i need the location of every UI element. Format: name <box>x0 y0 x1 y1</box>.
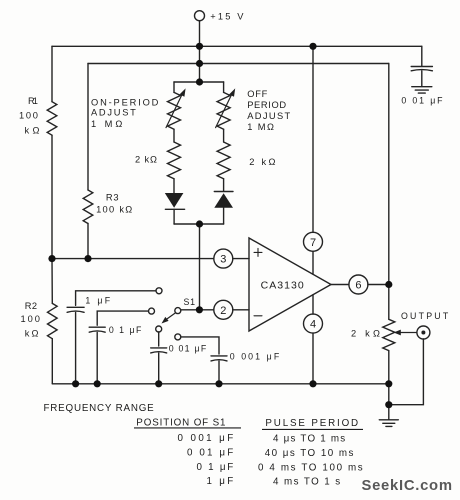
pin 6 circle <box>349 275 368 294</box>
svg-text:0 001 μF: 0 001 μF <box>230 352 280 362</box>
switch S1 contact 2 <box>149 308 155 314</box>
svg-text:+15 V: +15 V <box>210 12 244 22</box>
junction pot pair top <box>196 78 203 85</box>
wire left pot to 2k left <box>173 129 175 142</box>
wire pin3 circle to op-amp <box>233 258 249 260</box>
junction center at feedback rail <box>196 60 203 67</box>
svg-text:40 μs TO 10 ms: 40 μs TO 10 ms <box>265 448 355 459</box>
capacitor 0.001uF <box>211 356 227 384</box>
wire output terminal return <box>389 339 424 405</box>
svg-text:ADJUST: ADJUST <box>91 108 137 118</box>
svg-text:R2: R2 <box>25 301 38 311</box>
wire contact3 to 0.01uF cap <box>158 332 160 346</box>
diode D2 (cathode up, anode down) <box>214 192 233 225</box>
arrow of OFF-PERIOD pot <box>216 88 236 127</box>
svg-text:CA3130: CA3130 <box>261 280 304 292</box>
svg-text:100: 100 <box>19 110 39 120</box>
wire 2k left to diode D1 <box>173 179 175 193</box>
pin 2 circle <box>214 300 233 319</box>
potentiometer ON-PERIOD ADJUST 1M <box>168 92 181 129</box>
junction output return <box>385 401 392 408</box>
wiper arrow of output pot <box>394 330 417 336</box>
output terminal <box>417 326 430 339</box>
switch S1 contact 3 <box>156 326 162 332</box>
potentiometer 2k output <box>383 319 395 350</box>
arrow of ON-PERIOD pot <box>166 88 186 127</box>
svg-text:100: 100 <box>21 314 42 324</box>
junction pin3 R3 <box>84 255 91 262</box>
pin 7 circle <box>304 232 323 251</box>
potentiometer OFF-PERIOD ADJUST 1M <box>217 92 230 129</box>
svg-text:0 001 μF: 0 001 μF <box>178 433 235 444</box>
svg-text:4 ms TO 1 s: 4 ms TO 1 s <box>273 477 341 488</box>
wire output pot bottom to ground <box>388 351 390 405</box>
wire +15V terminal to top rail <box>199 21 201 47</box>
wire center column from rail to pot pair <box>199 46 201 82</box>
junction diode pair bottom <box>196 220 203 227</box>
resistor 2k left <box>168 142 181 179</box>
junction 0.1uF at ground rail <box>94 380 101 387</box>
wire output column (feedback rail down to output pot) <box>388 64 390 320</box>
wire switch pole to pin2 circle <box>181 309 214 311</box>
switch S1 pole <box>175 308 181 314</box>
svg-text:7: 7 <box>310 237 316 249</box>
pin 4 circle <box>304 314 323 333</box>
wire op-amp output to pin6 circle <box>331 284 349 286</box>
switch S1 contact 4 <box>175 334 181 340</box>
switch S1 contact 1 <box>156 288 162 294</box>
junction +15V at top rail <box>196 43 203 50</box>
underline POSITION OF S1 <box>134 427 241 429</box>
wire center column diodes to pin2 line <box>199 224 201 310</box>
junction 0.001uF at ground rail <box>215 380 222 387</box>
wire diode pair bottom bus <box>174 223 224 225</box>
wire R2 bottom to ground rail <box>51 339 53 384</box>
wire pin2 circle to op-amp <box>233 309 249 311</box>
capacitor 0.01uF bypass <box>411 67 432 87</box>
wire R1 bottom to pin3 node <box>51 135 53 258</box>
junction pin4 at ground rail <box>309 380 316 387</box>
svg-text:kΩ: kΩ <box>25 329 40 339</box>
capacitor 1uF <box>67 307 84 384</box>
svg-text:1 MΩ: 1 MΩ <box>91 119 123 129</box>
wire pin7 circle to op-amp top edge <box>312 251 314 274</box>
wire pin7 column from top rail <box>312 46 314 232</box>
op-amp U1 CA3130 triangle <box>249 238 331 331</box>
wire 0.01uF supply bypass cap from rail <box>421 46 423 66</box>
svg-text:0 1 μF: 0 1 μF <box>109 325 142 335</box>
capacitor 0.1uF <box>89 327 105 384</box>
svg-text:OFF: OFF <box>247 89 268 99</box>
diode D1 (anode up, cathode down) <box>165 193 185 224</box>
resistor R3 <box>83 190 93 224</box>
svg-text:0 01 μF: 0 01 μF <box>169 343 207 353</box>
junction output column at ground rail <box>385 380 392 387</box>
svg-text:0 01 μF: 0 01 μF <box>401 96 443 106</box>
junction 1uF at ground rail <box>72 380 79 387</box>
wire op-amp bottom edge to pin4 circle <box>312 295 314 314</box>
svg-text:2 kΩ: 2 kΩ <box>351 329 381 339</box>
resistor R2 <box>48 303 58 338</box>
svg-text:3: 3 <box>220 254 226 266</box>
svg-text:4: 4 <box>310 319 316 331</box>
wire pot pair top bus <box>174 81 224 83</box>
wire left pot branch top <box>173 82 175 92</box>
wire left column top (rail to R1) <box>51 46 53 101</box>
svg-text:1 MΩ: 1 MΩ <box>247 122 275 132</box>
wire contact4 to 0.001uF cap <box>181 337 219 354</box>
wire pin6 circle to output column <box>368 284 389 286</box>
wire right pot to 2k right <box>223 129 225 142</box>
svg-text:SeekIC.com: SeekIC.com <box>362 478 453 494</box>
wire contact2 to 0.1uF cap <box>97 311 148 325</box>
svg-text:ADJUST: ADJUST <box>247 111 291 121</box>
ground symbol bottom right <box>379 405 398 427</box>
junction pin7 at top rail <box>309 43 316 50</box>
svg-text:4 μs TO 1 ms: 4 μs TO 1 ms <box>273 433 346 444</box>
junction 0.01uF at ground rail <box>155 380 162 387</box>
svg-text:OUTPUT: OUTPUT <box>401 311 449 321</box>
resistor 2k right <box>217 142 230 179</box>
wire pin3 node to R2 top <box>51 259 53 304</box>
svg-text:1 μF: 1 μF <box>85 296 111 306</box>
pin 3 circle <box>214 249 233 268</box>
svg-text:FREQUENCY RANGE: FREQUENCY RANGE <box>44 403 155 414</box>
op-amp - input sign <box>254 315 262 317</box>
svg-text:0 1 μF: 0 1 μF <box>197 462 235 473</box>
svg-text:POSITION OF S1: POSITION OF S1 <box>136 417 226 428</box>
wire R3 bottom to pin3 line <box>87 224 89 259</box>
svg-text:0 01 μF: 0 01 μF <box>187 447 234 458</box>
svg-text:0 4 ms TO 100 ms: 0 4 ms TO 100 ms <box>258 462 364 473</box>
junction pin3 left column <box>48 255 55 262</box>
svg-text:R3: R3 <box>106 193 120 203</box>
op-amp + input sign <box>254 248 262 256</box>
capacitor 0.01uF <box>151 348 167 384</box>
wire pin4 circle to ground rail <box>312 333 314 384</box>
svg-text:100 kΩ: 100 kΩ <box>96 205 133 215</box>
svg-text:6: 6 <box>355 280 361 292</box>
wire contact1 to 1uF cap <box>76 291 156 306</box>
wire feedback rail <box>88 63 389 65</box>
svg-text:1 μF: 1 μF <box>207 476 235 487</box>
svg-text:2: 2 <box>220 305 226 317</box>
wire R3 column top <box>87 64 89 191</box>
resistor R1 <box>47 102 57 136</box>
svg-text:PULSE PERIOD: PULSE PERIOD <box>265 418 359 429</box>
wire pin3 input line <box>52 258 214 260</box>
wire top +15V rail <box>52 45 422 47</box>
svg-text:2 kΩ: 2 kΩ <box>135 155 158 165</box>
ground rail bottom <box>52 383 389 385</box>
svg-text:ON-PERIOD: ON-PERIOD <box>91 97 160 107</box>
junction pin2 switch node <box>196 306 203 313</box>
svg-text:2 kΩ: 2 kΩ <box>249 157 276 167</box>
svg-text:kΩ: kΩ <box>25 126 41 136</box>
svg-text:PERIOD: PERIOD <box>247 100 287 110</box>
junction pin6 output column <box>385 281 392 288</box>
wire right pot branch top <box>223 82 225 92</box>
ground symbol top right <box>412 87 432 93</box>
svg-text:R1: R1 <box>28 96 39 106</box>
underline PULSE PERIOD <box>262 428 363 430</box>
svg-text:S1: S1 <box>184 297 196 307</box>
wire 2k right to diode D2 <box>223 179 225 192</box>
switch S1 arm with arrow <box>162 313 176 324</box>
+15V supply terminal <box>195 11 205 21</box>
